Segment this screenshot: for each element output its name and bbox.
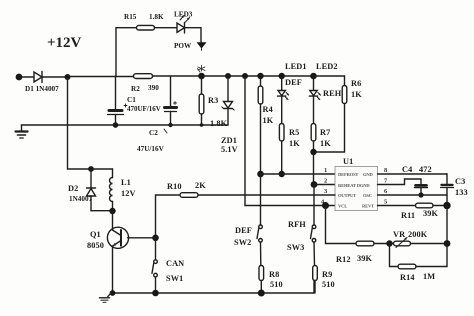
svg-text:R9: R9	[322, 270, 332, 279]
svg-text:REH: REH	[323, 89, 342, 98]
zener ZD1	[221, 76, 238, 154]
resistor R5	[279, 96, 300, 174]
wire pin8 to C3 top	[378, 173, 448, 175]
resistor R7	[311, 96, 331, 152]
svg-text:C2: C2	[149, 129, 158, 137]
svg-text:200K: 200K	[408, 230, 428, 239]
node VR right junction	[444, 240, 451, 247]
node ZD1 top	[225, 73, 231, 79]
wire Vcc drop to pin4	[245, 76, 335, 206]
node D2 top	[88, 166, 94, 172]
svg-text:VCL: VCL	[338, 204, 347, 209]
svg-text:C3: C3	[455, 177, 465, 186]
svg-text:DEF: DEF	[285, 78, 302, 87]
switch SW3	[287, 220, 316, 252]
svg-text:VR: VR	[393, 230, 406, 239]
resistor R2	[131, 74, 159, 93]
svg-text:SW1: SW1	[166, 274, 183, 283]
svg-text:5.1V: 5.1V	[221, 145, 238, 154]
wire input to D1	[19, 76, 34, 78]
switch SW2	[234, 225, 262, 247]
node C2 ground junction	[168, 123, 172, 127]
svg-text:8: 8	[384, 167, 388, 174]
wire LED3 to POW ground	[185, 28, 202, 43]
node C4 bottom junction	[418, 192, 423, 197]
resistor R9	[313, 242, 335, 293]
svg-text:2: 2	[324, 178, 327, 185]
svg-text:1K: 1K	[289, 139, 300, 148]
svg-text:1.8K: 1.8K	[210, 119, 228, 128]
node R3 top junction with mark	[198, 73, 205, 80]
node R3 bottom	[200, 123, 204, 127]
wire D2/L1 branch	[68, 77, 92, 169]
svg-text:5: 5	[384, 199, 388, 206]
wire R9 bottom corner	[313, 281, 315, 294]
node R6/R7 junction	[310, 149, 316, 155]
svg-text:DEF: DEF	[235, 226, 252, 235]
svg-text:C1: C1	[127, 96, 136, 104]
node SW1 ground junction	[152, 290, 159, 297]
switch SW1	[152, 259, 184, 283]
wire D2 bottom	[91, 210, 113, 212]
svg-text:C4: C4	[402, 165, 412, 174]
wire SW1 to ground bus	[155, 277, 157, 293]
resistor R14 loop	[390, 244, 448, 283]
svg-text:1K: 1K	[320, 139, 331, 148]
U1 pin numbers	[321, 167, 388, 206]
capacitor C1	[108, 76, 161, 125]
svg-text:470UF/16V: 470UF/16V	[127, 105, 161, 113]
wire pin5 to R11	[378, 205, 416, 207]
svg-text:REHEAT DGND: REHEAT DGND	[338, 183, 370, 188]
svg-text:Q1: Q1	[90, 230, 101, 239]
svg-text:7: 7	[384, 178, 388, 185]
node C1 ground junction	[113, 122, 119, 128]
wire SW1 riser	[155, 238, 157, 260]
node LED1 top	[279, 73, 285, 79]
svg-text:R6: R6	[351, 79, 361, 88]
svg-text:U1: U1	[343, 157, 353, 166]
svg-text:R3: R3	[208, 96, 218, 105]
transistor Q1	[87, 211, 156, 293]
node R4 bottom junction	[257, 171, 264, 178]
wire LED2 column to pin2	[313, 152, 315, 185]
svg-text:DEFROST: DEFROST	[338, 172, 358, 177]
svg-text:12V: 12V	[121, 189, 136, 198]
resistor R6	[314, 76, 363, 152]
svg-text:L1: L1	[121, 178, 131, 187]
svg-text:R5: R5	[289, 128, 299, 137]
node input terminal	[16, 74, 23, 81]
node J1	[65, 74, 71, 80]
svg-text:D2: D2	[68, 184, 78, 193]
node R12/VR junction	[386, 240, 392, 246]
svg-text:2K: 2K	[195, 181, 206, 190]
node pin4 junction	[322, 202, 329, 209]
wire SW3 riser	[313, 185, 315, 226]
diode D1	[25, 72, 59, 94]
svg-text:SW2: SW2	[234, 238, 251, 247]
svg-text:390: 390	[148, 84, 159, 92]
wire pin6 line	[378, 194, 448, 196]
capacitor C4	[402, 165, 432, 195]
svg-text:8050: 8050	[87, 241, 104, 250]
svg-text:6: 6	[384, 188, 388, 195]
svg-text:1K: 1K	[263, 116, 274, 125]
node U1 Vcc tap	[242, 73, 248, 79]
svg-text:1K: 1K	[351, 90, 362, 99]
potentiometer VR	[390, 230, 448, 248]
svg-text:R12: R12	[336, 255, 351, 264]
wire pin1 line	[261, 173, 336, 175]
svg-text:510: 510	[270, 280, 283, 289]
svg-text:GND: GND	[363, 172, 373, 177]
svg-text:OSC: OSC	[363, 193, 372, 198]
svg-text:SW3: SW3	[287, 243, 304, 252]
node R4 top	[257, 73, 263, 79]
ground rail left	[16, 125, 229, 138]
LED LED2	[309, 62, 341, 100]
svg-text:133: 133	[455, 188, 468, 197]
svg-text:ZD1: ZD1	[221, 136, 237, 145]
svg-text:39K: 39K	[423, 209, 438, 218]
node base junction	[152, 235, 159, 242]
svg-text:47U/16V: 47U/16V	[137, 145, 165, 153]
resistor R10	[156, 181, 207, 238]
resistor R12	[336, 241, 390, 264]
svg-text:R11: R11	[401, 211, 415, 220]
wire pin3 line	[198, 194, 335, 196]
wire pin2 stub	[314, 184, 335, 186]
wire SW2 riser	[260, 174, 262, 225]
U1 pin names	[338, 172, 374, 209]
svg-text:D1 1N4007: D1 1N4007	[25, 85, 59, 93]
svg-text:R2: R2	[131, 85, 140, 93]
resistor R3	[199, 76, 227, 128]
node R5 bottom junction	[279, 171, 285, 177]
node collector junction	[109, 208, 115, 214]
wire pin4 drop to R12 line	[326, 206, 357, 244]
svg-text:R10: R10	[167, 182, 182, 191]
svg-text:RFH: RFH	[288, 220, 306, 229]
svg-text:1M: 1M	[423, 272, 435, 281]
wire REVT node down	[446, 206, 448, 267]
capacitor C3	[441, 174, 468, 206]
svg-text:+12V: +12V	[47, 35, 82, 51]
svg-text:LED3: LED3	[174, 11, 193, 19]
svg-text:3: 3	[324, 188, 328, 195]
resistor R11	[401, 203, 447, 220]
svg-text:1: 1	[324, 167, 327, 174]
svg-text:R8: R8	[269, 270, 279, 279]
svg-text:510: 510	[322, 280, 335, 289]
LED LED3	[174, 11, 193, 34]
inductor L1	[110, 169, 136, 211]
resistor R8	[259, 242, 283, 293]
ground symbol bottom	[100, 294, 111, 303]
svg-text:R7: R7	[320, 128, 330, 137]
svg-text:CAN: CAN	[166, 259, 184, 268]
node emitter ground	[110, 290, 116, 296]
ground POW	[174, 42, 207, 50]
wire R15 branch riser	[116, 28, 137, 76]
svg-text:39K: 39K	[357, 254, 372, 263]
wire top bus left segment	[68, 76, 134, 78]
svg-text:REVT: REVT	[362, 204, 374, 209]
svg-text:R4: R4	[263, 105, 273, 114]
LED LED1	[278, 62, 307, 100]
capacitor C2	[137, 76, 177, 153]
node REVT junction	[443, 202, 450, 209]
wire D1 to junction	[42, 76, 68, 78]
wire R15 to LED3	[155, 27, 178, 29]
svg-text:LED2: LED2	[316, 62, 338, 71]
wire L1 top	[91, 168, 113, 170]
resistor R15	[124, 13, 164, 30]
svg-text:R14: R14	[400, 273, 415, 282]
wire top bus right segment	[153, 75, 345, 77]
node LED2 top	[310, 73, 317, 80]
svg-text:R15: R15	[124, 13, 137, 21]
svg-text:1.8K: 1.8K	[149, 13, 164, 21]
resistor R4	[258, 76, 274, 174]
diode D2	[68, 169, 96, 211]
svg-text:472: 472	[419, 165, 432, 174]
svg-text:LED1: LED1	[285, 62, 307, 71]
svg-text:POW: POW	[174, 42, 192, 50]
ground bus bottom	[113, 292, 315, 294]
IC U1 box	[335, 167, 378, 211]
wire pin7 step to C4	[378, 179, 422, 185]
node pin2 junction	[311, 181, 318, 188]
svg-text:1N4007: 1N4007	[69, 195, 93, 203]
svg-text:OUTPUT: OUTPUT	[338, 193, 356, 198]
node R8 ground junction	[258, 290, 265, 297]
